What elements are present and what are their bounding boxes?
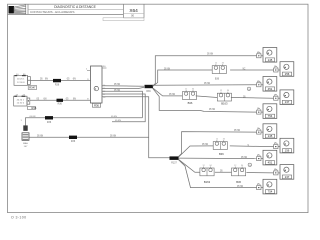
svg-text:R36: R36 bbox=[58, 104, 63, 106]
svg-text:145: 145 bbox=[268, 58, 273, 62]
svg-text:451: 451 bbox=[268, 161, 273, 165]
svg-text:40 25 1: 40 25 1 bbox=[17, 79, 25, 81]
svg-text:05 6N: 05 6N bbox=[37, 135, 43, 137]
svg-text:DIAGNOSTIC A DISTANCE: DIAGNOSTIC A DISTANCE bbox=[54, 5, 96, 9]
svg-text:12 31 6: 12 31 6 bbox=[17, 103, 25, 105]
svg-text:12 30 8: 12 30 8 bbox=[17, 82, 25, 84]
svg-text:05 6N: 05 6N bbox=[237, 186, 243, 188]
svg-text:05 6N: 05 6N bbox=[110, 135, 116, 137]
svg-text:B36: B36 bbox=[236, 180, 241, 184]
svg-text:40 20 1: 40 20 1 bbox=[17, 99, 25, 101]
svg-text:05 6N: 05 6N bbox=[115, 120, 121, 122]
svg-text:05 6N: 05 6N bbox=[234, 130, 240, 132]
svg-text:00: 00 bbox=[131, 14, 135, 18]
svg-text:6N: 6N bbox=[73, 79, 76, 81]
svg-text:9C: 9C bbox=[243, 68, 246, 70]
svg-text:R36: R36 bbox=[71, 141, 76, 143]
svg-text:G: G bbox=[248, 89, 250, 91]
svg-text:05 6N: 05 6N bbox=[202, 144, 208, 146]
svg-text:754: 754 bbox=[268, 114, 273, 118]
svg-text:R347: R347 bbox=[29, 86, 36, 90]
svg-text:6N: 6N bbox=[44, 99, 47, 101]
svg-text:156: 156 bbox=[285, 72, 290, 76]
svg-text:754: 754 bbox=[268, 190, 273, 194]
svg-text:6N: 6N bbox=[73, 99, 76, 101]
svg-text:R36: R36 bbox=[32, 106, 37, 110]
svg-text:R36: R36 bbox=[55, 84, 60, 86]
svg-text:B36: B36 bbox=[188, 101, 193, 105]
svg-text:MAS: MAS bbox=[23, 142, 28, 145]
svg-text:CONTACTEURS - ECLAIREURS: CONTACTEURS - ECLAIREURS bbox=[30, 10, 74, 14]
svg-text:05 6N: 05 6N bbox=[207, 54, 213, 56]
svg-text:137: 137 bbox=[285, 100, 290, 104]
svg-text:137: 137 bbox=[285, 175, 290, 179]
svg-text:05 6N: 05 6N bbox=[111, 116, 117, 118]
svg-text:R36: R36 bbox=[94, 104, 99, 108]
svg-text:B163: B163 bbox=[204, 180, 211, 184]
svg-text:6N: 6N bbox=[45, 79, 48, 81]
svg-text:R36: R36 bbox=[47, 122, 52, 124]
svg-text:451: 451 bbox=[268, 87, 273, 91]
svg-text:05 6N: 05 6N bbox=[241, 157, 247, 159]
svg-text:B36: B36 bbox=[219, 152, 224, 156]
svg-text:05 6N: 05 6N bbox=[30, 116, 36, 118]
svg-text:B36: B36 bbox=[215, 77, 220, 80]
svg-text:R137: R137 bbox=[171, 162, 177, 164]
svg-text:B163: B163 bbox=[221, 101, 228, 105]
svg-text:156: 156 bbox=[285, 149, 290, 153]
svg-text:05 6N: 05 6N bbox=[169, 94, 175, 96]
svg-text:05 6N: 05 6N bbox=[114, 90, 120, 92]
svg-text:05 6N: 05 6N bbox=[164, 68, 170, 70]
svg-text:145: 145 bbox=[268, 134, 273, 138]
svg-text:R36: R36 bbox=[146, 91, 151, 93]
svg-text:05 6N: 05 6N bbox=[209, 109, 215, 111]
svg-text:O 3-100: O 3-100 bbox=[11, 215, 26, 219]
svg-text:05 6N: 05 6N bbox=[204, 83, 210, 85]
svg-text:G: G bbox=[249, 165, 251, 167]
svg-text:05 6N: 05 6N bbox=[114, 84, 120, 86]
